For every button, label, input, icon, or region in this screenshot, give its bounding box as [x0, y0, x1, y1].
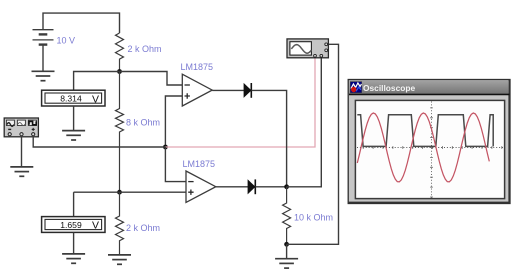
wire voltmeter M2 to ground — [73, 232, 75, 253]
wire node A to voltmeter U1 — [74, 72, 120, 91]
svg-text:V: V — [92, 93, 99, 105]
battery V1 10V — [33, 30, 54, 71]
node E junction — [284, 242, 289, 247]
wire node D to scope channel B — [287, 58, 322, 187]
node B junction — [163, 145, 168, 150]
wire node B to op-amp U2 inverting input — [165, 147, 186, 182]
oscilloscope window — [348, 80, 510, 204]
svg-text:1.659: 1.659 — [60, 220, 82, 230]
scope vertical axis — [431, 102, 433, 199]
resistor R4 10k — [283, 187, 291, 245]
wire op-amp U1 output to diode D1 — [212, 89, 244, 91]
svg-text:10 k Ohm: 10 k Ohm — [294, 213, 333, 223]
svg-text:8 k Ohm: 8 k Ohm — [126, 118, 160, 128]
ground below XFG1 — [10, 167, 33, 176]
node A junction — [117, 69, 122, 74]
voltmeter M2 1.659 V — [42, 217, 105, 233]
svg-text:2 k Ohm: 2 k Ohm — [128, 44, 162, 54]
svg-text:8.314: 8.314 — [60, 94, 82, 104]
wire XFG1 common to ground — [21, 136, 23, 167]
scope trace channel A (red sine) — [357, 113, 489, 182]
wire node E to scope ground terminal — [287, 44, 339, 244]
resistor R2 8k — [116, 72, 124, 193]
ground below voltmeter M2 — [62, 254, 85, 263]
resistor R3 2k bottom — [116, 192, 124, 254]
scope horizontal axis ticks — [363, 146, 502, 149]
wire node A to op-amp U1 inverting input — [120, 72, 183, 86]
ground below node E — [275, 259, 298, 268]
wire op-amp U1 noninverting input to node B — [165, 96, 182, 147]
wire node E to ground — [286, 244, 288, 258]
svg-text:Oscilloscope: Oscilloscope — [363, 83, 415, 93]
wire op-amp U2 output to diode D2 — [216, 186, 248, 188]
svg-text:LM1875: LM1875 — [183, 159, 216, 169]
red probe wire node B to scope channel A — [165, 58, 315, 147]
op-amp U1 LM1875 (top) — [182, 74, 212, 106]
svg-text:10 V: 10 V — [57, 36, 76, 46]
svg-text:LM1875: LM1875 — [181, 62, 214, 72]
wire node C to voltmeter M2 — [73, 192, 75, 216]
oscilloscope instrument icon XSC1 — [287, 39, 328, 58]
op-amp U2 LM1875 (bottom) — [186, 171, 216, 202]
wire diode D1 to node D — [252, 90, 287, 186]
wire diode D2 to node D — [256, 186, 287, 188]
function generator XFG1 — [4, 118, 38, 137]
node C junction — [117, 190, 122, 195]
scope trace channel B (black square wave) — [357, 115, 493, 147]
ground below R3 — [108, 255, 131, 264]
scope vertical axis ticks — [430, 108, 433, 197]
scope horizontal axis — [357, 147, 504, 149]
wire node C to op-amp U2 noninverting input — [74, 191, 186, 193]
ground below battery — [32, 71, 55, 80]
wire top rail from battery to R1 — [43, 13, 120, 33]
voltmeter M1 8.314 V — [42, 90, 105, 106]
diode D2 — [248, 179, 255, 194]
diode D1 — [244, 83, 251, 98]
svg-text:V: V — [92, 220, 99, 232]
wire voltmeter M1 to ground — [73, 106, 75, 130]
wire XFG1 + output to node B — [33, 136, 165, 147]
svg-text:2 k Ohm: 2 k Ohm — [126, 223, 160, 233]
ground below voltmeter M1 — [62, 131, 85, 140]
resistor R1 2k top — [116, 33, 124, 72]
node D junction — [284, 184, 289, 189]
